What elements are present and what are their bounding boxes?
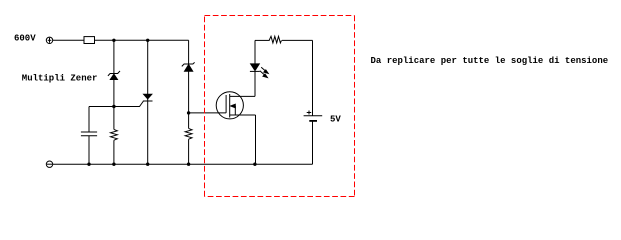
junction gate node — [187, 111, 190, 114]
dashed red box — [205, 16, 355, 197]
junction bottom R3 — [187, 163, 190, 166]
resistor R2 — [111, 107, 118, 165]
wire capacitor-top to SCR gate — [89, 101, 144, 107]
wire D1 upper lead — [113, 40, 115, 73]
SCR Q1 (thyristor) — [143, 94, 153, 101]
wire D1 lower lead — [113, 80, 115, 107]
wire D2 upper lead — [188, 40, 190, 64]
wire LED anode lead — [254, 40, 256, 64]
wire gate to MOSFET — [189, 112, 227, 114]
resistor R4 (horizontal) — [269, 36, 281, 43]
wire MOSFET drain up to LED — [254, 71, 256, 96]
wire SCR cathode lead — [147, 99, 149, 164]
junction bottom SCR — [146, 163, 149, 166]
zener D2 — [182, 62, 195, 71]
zener D1 — [108, 71, 120, 80]
resistor R3 — [185, 113, 192, 164]
junction gate wire / D1 branch — [112, 105, 115, 108]
svg-text:600V: 600V — [14, 34, 36, 44]
wire D2 lower lead — [188, 71, 190, 113]
wire terminal to R1 — [53, 39, 84, 41]
capacitor C1 — [81, 107, 97, 165]
MOSFET Q2 — [216, 92, 255, 119]
svg-text:5V: 5V — [330, 115, 341, 125]
junction bottom R2 — [112, 163, 115, 166]
junction bottom C1 — [87, 163, 90, 166]
svg-text:Da replicare per tutte le sogl: Da replicare per tutte le soglie di tens… — [371, 56, 609, 66]
terminal minus (bottom input) — [46, 161, 52, 167]
svg-text:Multipli Zener: Multipli Zener — [22, 74, 98, 84]
LED D3 — [250, 64, 268, 78]
wire bottom bus — [53, 163, 313, 165]
wire inner top left — [255, 39, 270, 41]
wire top bus — [94, 39, 189, 41]
terminal plus (top input) — [46, 37, 52, 43]
wire battery top lead — [312, 40, 314, 115]
resistor R1 (box style) — [84, 37, 95, 44]
battery V1 — [304, 111, 323, 165]
junction bottom MOSFET source — [253, 163, 256, 166]
junction top bus / zener D1 branch — [112, 39, 115, 42]
wire MOSFET source down — [255, 115, 257, 164]
wire inner top right — [282, 39, 313, 41]
junction top bus / SCR branch — [146, 39, 149, 42]
wire SCR anode lead — [147, 40, 149, 94]
